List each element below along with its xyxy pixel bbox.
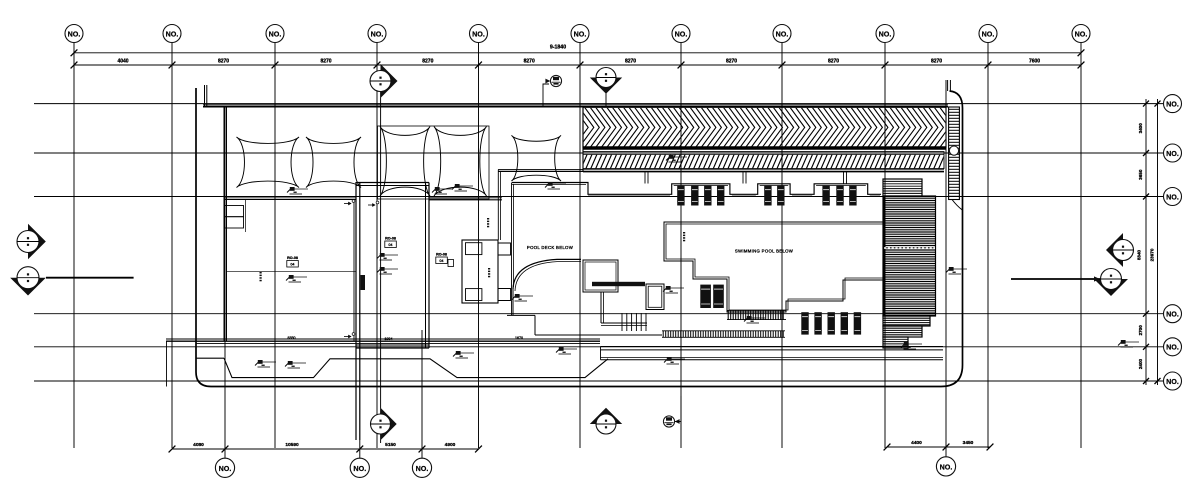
svg-text:SWIMMING POOL BELOW: SWIMMING POOL BELOW — [735, 249, 794, 254]
svg-text:4900: 4900 — [445, 442, 456, 448]
svg-text:NO.: NO. — [940, 462, 953, 471]
svg-text:NO.: NO. — [675, 29, 688, 38]
svg-text:04: 04 — [389, 243, 393, 247]
svg-text:NO.: NO. — [353, 464, 366, 473]
svg-text:1670: 1670 — [515, 336, 523, 340]
svg-text:8270: 8270 — [218, 59, 229, 65]
svg-text:NO.: NO. — [1166, 192, 1179, 201]
svg-text:4080: 4080 — [193, 442, 204, 448]
svg-text:7600: 7600 — [1029, 59, 1040, 65]
svg-text:8350: 8350 — [288, 336, 296, 340]
svg-text:2400: 2400 — [1138, 358, 1143, 369]
svg-text:8270: 8270 — [524, 59, 535, 65]
svg-text:4040: 4040 — [117, 59, 128, 65]
svg-text:NO.: NO. — [1166, 377, 1179, 386]
svg-text:23970: 23970 — [1150, 248, 1155, 261]
svg-text:RO-08: RO-08 — [385, 237, 396, 241]
svg-text:10590: 10590 — [285, 442, 299, 448]
svg-text:NO.: NO. — [1075, 29, 1088, 38]
svg-text:8270: 8270 — [931, 59, 942, 65]
svg-text:NO.: NO. — [879, 29, 892, 38]
svg-text:3400: 3400 — [1138, 123, 1143, 134]
svg-text:2700: 2700 — [1138, 325, 1143, 336]
svg-text:9-1840: 9-1840 — [550, 45, 566, 51]
svg-text:NO.: NO. — [472, 29, 485, 38]
svg-text:NO.: NO. — [1166, 343, 1179, 352]
svg-text:RO-08: RO-08 — [287, 256, 298, 260]
svg-text:NO.: NO. — [1166, 149, 1179, 158]
svg-text:NO.: NO. — [166, 29, 179, 38]
svg-text:4400: 4400 — [911, 440, 922, 446]
svg-text:NO.: NO. — [982, 29, 995, 38]
svg-text:NO.: NO. — [1166, 99, 1179, 108]
svg-text:NO.: NO. — [219, 464, 232, 473]
svg-text:8270: 8270 — [625, 59, 636, 65]
svg-text:NO.: NO. — [269, 29, 282, 38]
svg-text:1934: 1934 — [385, 337, 393, 341]
svg-text:8270: 8270 — [320, 59, 331, 65]
svg-text:NO.: NO. — [776, 29, 789, 38]
svg-text:8270: 8270 — [422, 59, 433, 65]
svg-text:3650: 3650 — [1138, 169, 1143, 180]
svg-text:NO.: NO. — [416, 464, 429, 473]
svg-text:8270: 8270 — [726, 59, 737, 65]
svg-text:04: 04 — [291, 263, 295, 267]
svg-text:RO-08: RO-08 — [436, 253, 447, 257]
svg-text:5150: 5150 — [385, 442, 396, 448]
svg-text:8270: 8270 — [828, 59, 839, 65]
svg-text:NO.: NO. — [1166, 310, 1179, 319]
svg-text:NO.: NO. — [574, 29, 587, 38]
svg-text:8340: 8340 — [1137, 249, 1142, 260]
svg-text:POOL DECK BELOW: POOL DECK BELOW — [527, 245, 574, 250]
svg-text:3450: 3450 — [963, 440, 974, 446]
svg-text:NO.: NO. — [68, 29, 81, 38]
svg-text:04: 04 — [440, 259, 444, 263]
svg-text:NO.: NO. — [371, 29, 384, 38]
